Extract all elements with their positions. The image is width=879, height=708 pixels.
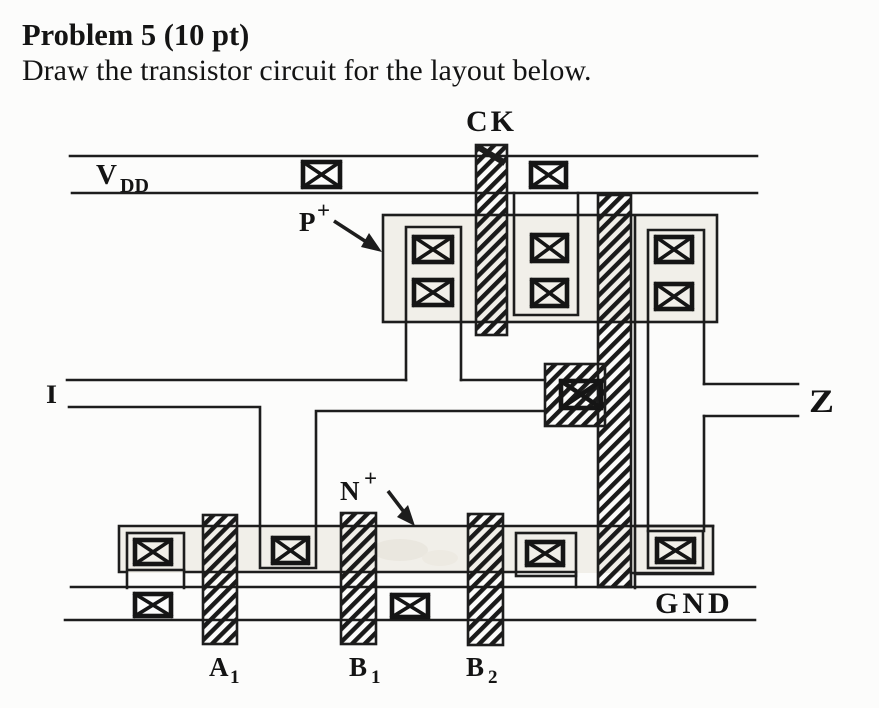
svg-text:2: 2 — [488, 667, 498, 688]
contact N+ left — [135, 540, 171, 564]
svg-text:I: I — [46, 380, 57, 409]
svg-text:B: B — [466, 652, 484, 682]
metal strap Z box to GND — [634, 574, 637, 588]
svg-text:A: A — [209, 652, 229, 682]
poly gate CK top notch — [478, 147, 505, 163]
svg-text:B: B — [349, 652, 367, 682]
n+ diffusion outline — [119, 526, 713, 588]
contact Z bottom — [657, 539, 694, 562]
metal box Z bottom outer — [635, 526, 713, 574]
arrow N+ — [388, 491, 404, 512]
poly gate B1 — [341, 513, 376, 644]
metal column Z right — [648, 230, 704, 531]
n+ diffusion region — [119, 526, 713, 573]
poly gate B2 — [468, 514, 503, 645]
svg-text:Problem 5 (10 pt): Problem 5 (10 pt) — [22, 18, 249, 52]
contact P+ right upper — [656, 237, 692, 262]
contact P+ left lower — [414, 280, 452, 305]
poly gate CK — [476, 145, 507, 335]
contact VDD left — [303, 162, 340, 187]
metal box N+ left — [127, 533, 184, 570]
svg-text:P: P — [299, 207, 316, 237]
contact I branch bottom — [273, 538, 308, 563]
contact P+ right lower — [656, 284, 692, 309]
contact VDD middle — [531, 163, 566, 187]
p+ diffusion region — [383, 215, 717, 322]
wire Z stub — [704, 384, 798, 416]
svg-text:V: V — [96, 159, 117, 191]
contact GND left — [135, 594, 171, 616]
svg-text:CK: CK — [466, 105, 517, 138]
svg-text:N: N — [340, 476, 360, 506]
poly gate A1 — [203, 515, 237, 644]
metal column P+ left — [406, 227, 461, 380]
contact P+ middle lower — [532, 280, 567, 306]
wire I upper branch — [67, 379, 545, 382]
contact P+ left upper — [414, 237, 452, 262]
wire I lower branch — [69, 407, 545, 568]
metal box N+ right of B2 — [516, 533, 576, 576]
svg-text:Z: Z — [809, 384, 834, 420]
svg-text:GND: GND — [655, 587, 734, 620]
contact N+ right of B2 — [527, 542, 563, 565]
svg-text:Draw the transistor circuit fo: Draw the transistor circuit for the layo… — [22, 54, 592, 87]
wire VDD rail top edge — [70, 155, 757, 158]
arrow P+ — [334, 221, 368, 243]
p+ diffusion divider — [634, 217, 637, 527]
svg-text:+: + — [317, 198, 330, 223]
wire GND rail top edge — [71, 586, 755, 589]
metal box Z bottom inner — [648, 531, 703, 568]
contact P+ middle upper — [532, 235, 567, 261]
metal column P+ middle — [514, 193, 578, 315]
contact poly pad — [561, 381, 601, 408]
svg-text:1: 1 — [371, 667, 381, 688]
contact GND middle — [392, 595, 428, 617]
poly gate tall I-driven — [598, 195, 631, 587]
poly contact pad — [545, 364, 605, 426]
svg-text:+: + — [364, 466, 377, 491]
wire GND rail bottom edge — [65, 619, 755, 622]
wire VDD rail bottom edge — [72, 192, 757, 195]
watermark smudge — [372, 539, 428, 561]
svg-text:1: 1 — [230, 667, 240, 688]
svg-text:DD: DD — [120, 175, 149, 197]
